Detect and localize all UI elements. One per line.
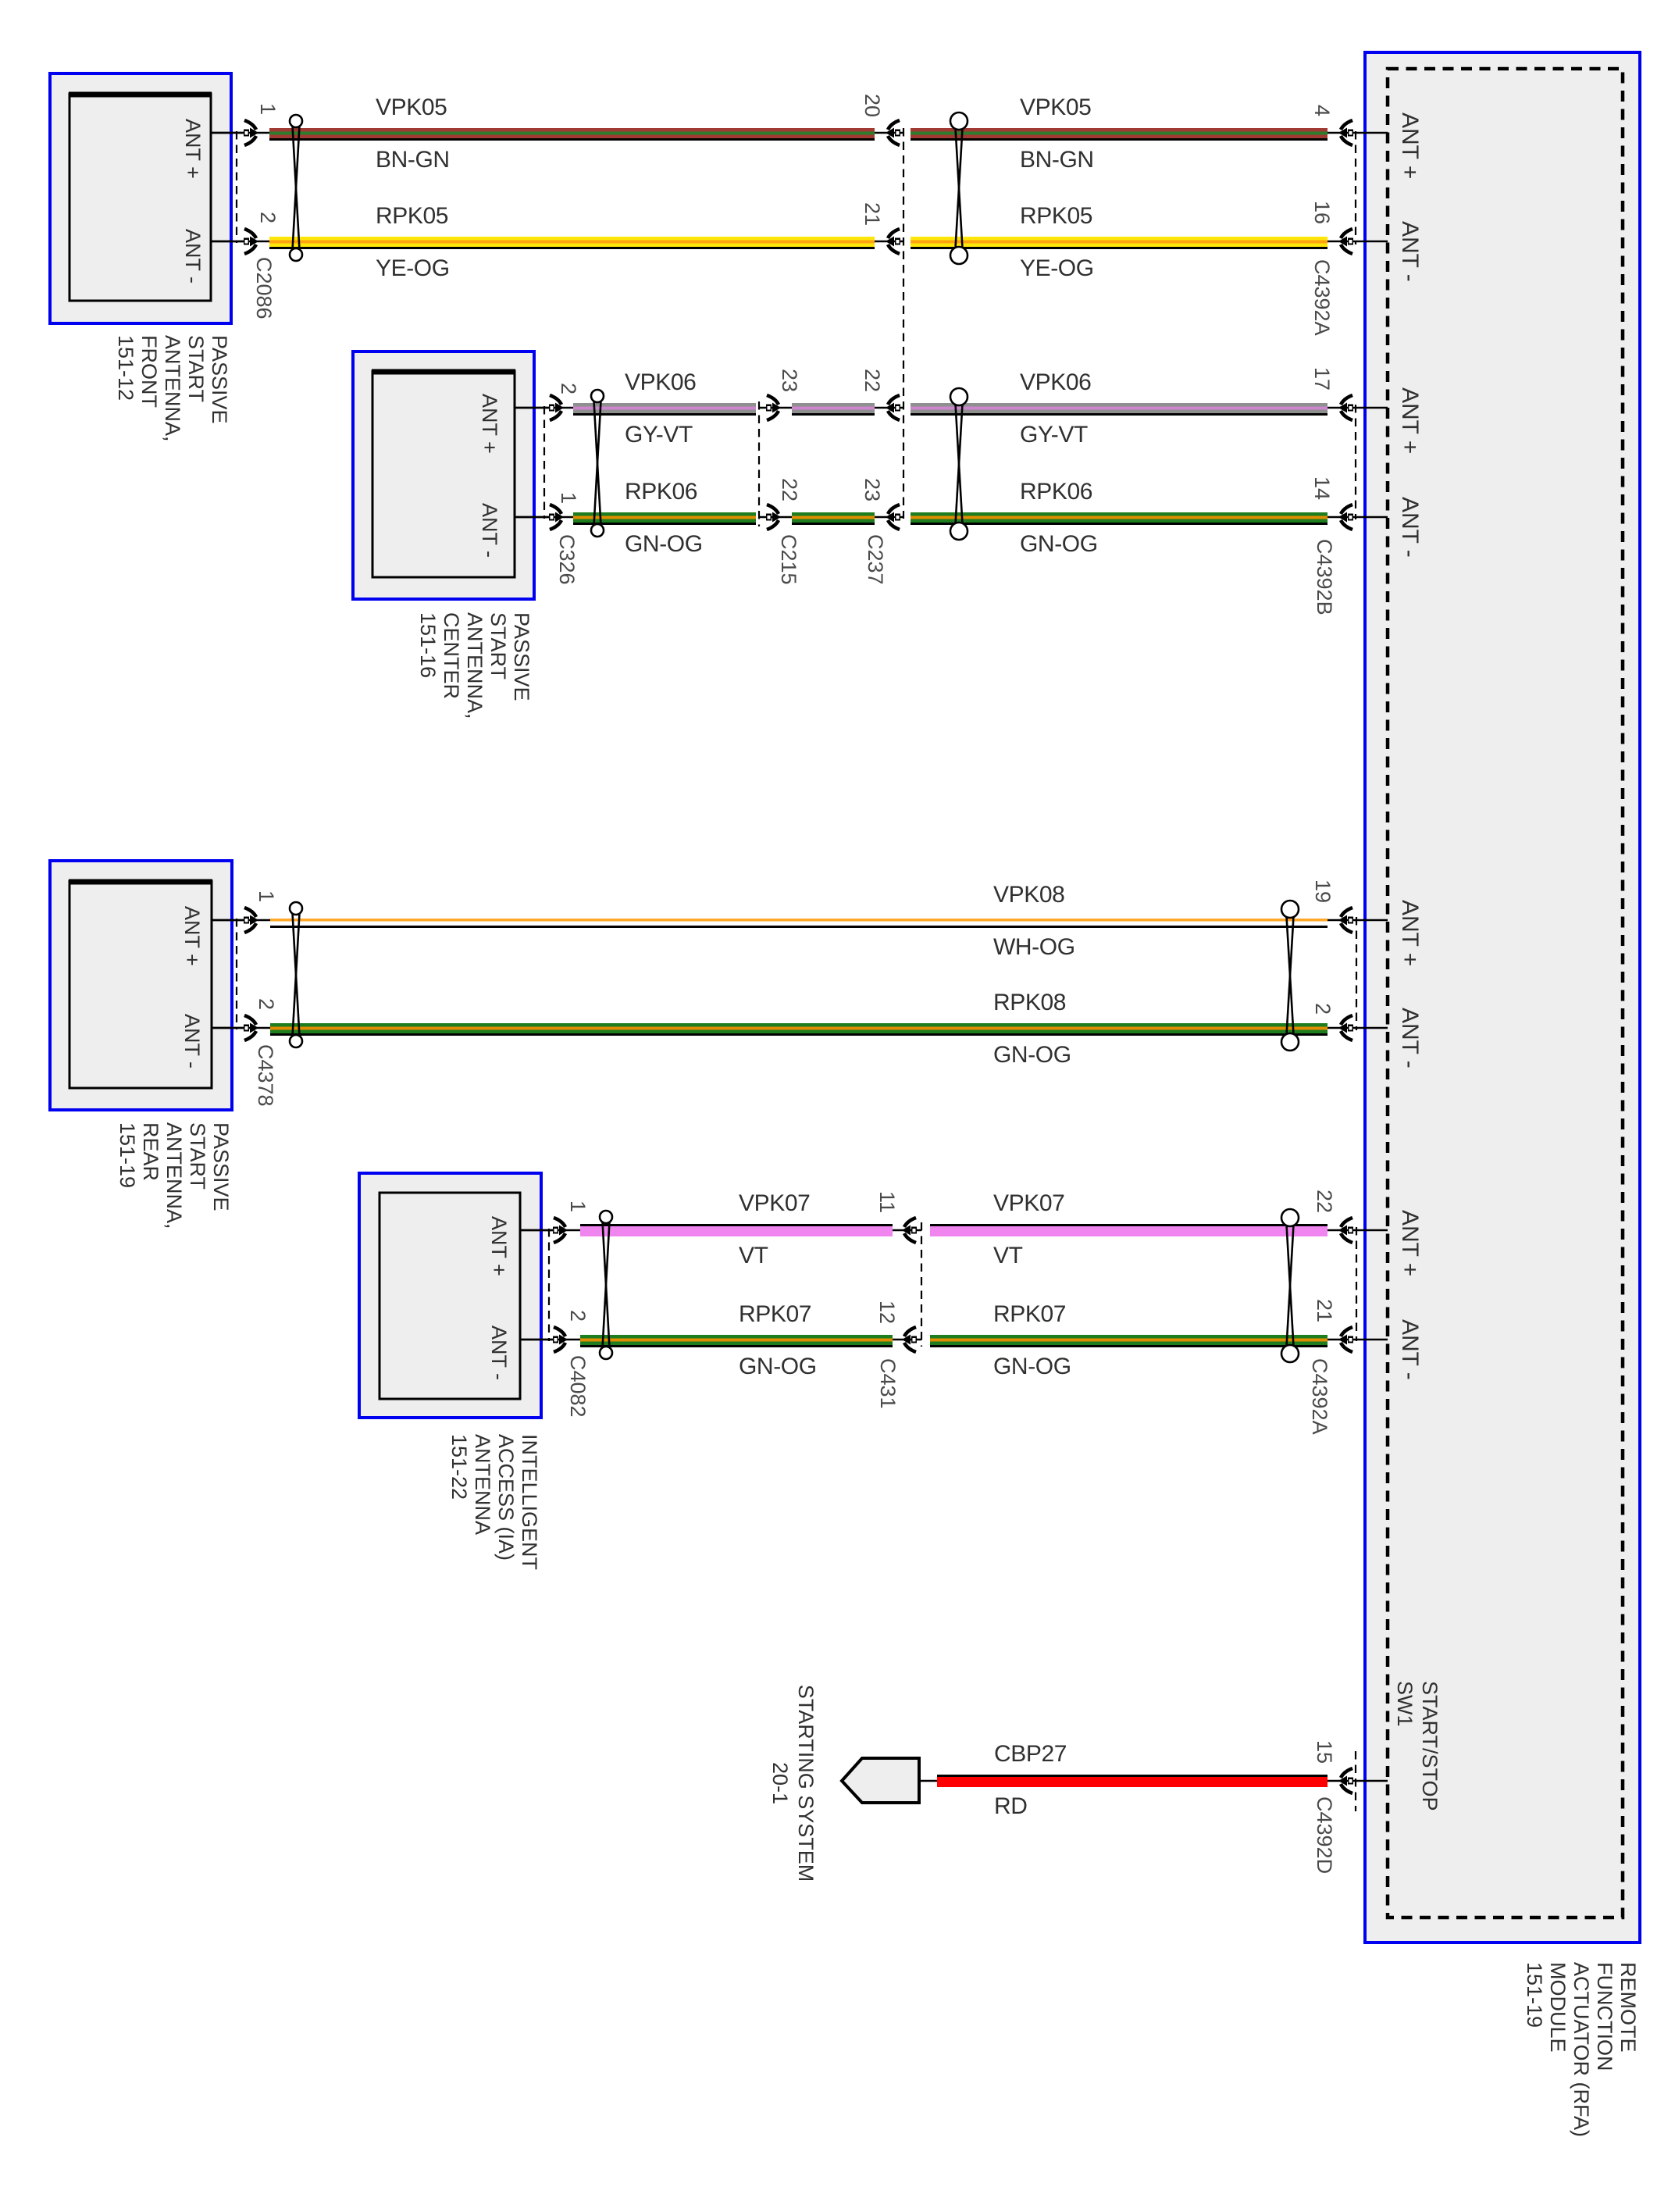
svg-text:C4082: C4082 (566, 1355, 590, 1418)
svg-text:ANT -: ANT - (181, 229, 205, 284)
antenna box: INTELLIGENT ACCESS (IA) ANTENNA (outer + inner) (359, 1173, 541, 1418)
wire color label WH-OG @(1272,1222) (993, 934, 1075, 960)
svg-text:23: 23 (778, 369, 801, 392)
twisted pair loop: VPK06/RPK06 right (950, 388, 968, 540)
terminal arrow IA antenna pin 2 (553, 1327, 568, 1352)
center antenna ANT- label (478, 503, 501, 558)
antenna box: PASSIVE START ANTENNA, FRONT (outer + inner) (50, 73, 231, 323)
terminal arrow IA antenna pin 1 (553, 1218, 568, 1243)
wire stub: module pin at y=662 (1328, 516, 1388, 519)
svg-text:151-12: 151-12 (114, 335, 137, 401)
circuit label VPK05 @(481,147) (376, 95, 447, 120)
wire stub: module pin at y=1715 (1328, 1339, 1388, 1341)
svg-text:22: 22 (778, 478, 801, 501)
svg-text:19: 19 (1311, 879, 1335, 903)
svg-text:VPK05: VPK05 (376, 95, 447, 120)
device label: REMOTE FUNCTION ACTUATOR (RFA) MODULE 151-19 (1523, 1962, 1640, 2137)
pin 1 (center antenna) (557, 492, 580, 504)
wire lead C431 pin 12 (893, 1339, 921, 1341)
svg-text:21: 21 (861, 202, 884, 226)
svg-text:C326: C326 (555, 534, 579, 585)
inline connector dashed line (C237 / pins 20-23) (903, 128, 904, 519)
svg-text:22: 22 (861, 369, 884, 392)
svg-text:SW1: SW1 (1393, 1681, 1417, 1727)
svg-text:2: 2 (566, 1310, 590, 1322)
pin 14 (module) (1310, 476, 1334, 500)
svg-text:CBP27: CBP27 (994, 1741, 1067, 1767)
svg-text:MODULE: MODULE (1546, 1962, 1570, 2053)
terminal arrow C237 pin 23 (886, 505, 900, 530)
terminal arrow module pin 16 (1338, 229, 1353, 254)
wire VPK06 GY-VT segment 2 (792, 403, 875, 416)
twisted pair loop: VPK06/RPK06 left (591, 390, 604, 537)
wire RPK08 GN-OG (270, 1023, 1328, 1036)
svg-text:INTELLIGENT: INTELLIGENT (518, 1434, 541, 1570)
wire lead inline pin 21 (875, 241, 903, 243)
device label: PASSIVE START ANTENNA, REAR 151-19 (116, 1122, 233, 1229)
wire lead C237 pin 23 (875, 516, 903, 519)
wire lead-in rear pin 2 (212, 1027, 273, 1029)
terminal arrow C215 pin 22 (766, 505, 781, 530)
wire RPK05 YE-OG segment 1 (269, 237, 875, 249)
svg-text:YE-OG: YE-OG (1020, 255, 1094, 281)
wire lead-in IA pin 1 (520, 1229, 583, 1232)
wire stub: rear antenna pin 1 (212, 919, 247, 922)
pin 4 (module) (1310, 105, 1334, 116)
wire stub: IA antenna pin 2 (520, 1339, 554, 1341)
wire stub: module pin at y=522 (1328, 407, 1388, 409)
svg-text:RPK07: RPK07 (993, 1301, 1066, 1327)
wire color label BN-GN @(481,214) (376, 147, 450, 173)
svg-text:GN-OG: GN-OG (625, 531, 703, 557)
wire lead-in IA pin 2 (520, 1339, 583, 1341)
svg-text:ACCESS (IA): ACCESS (IA) (494, 1434, 518, 1561)
connector label C4378 (254, 1044, 277, 1107)
front antenna ANT- label (181, 229, 205, 284)
wire stub: module pin at y=1316 (1328, 1027, 1388, 1029)
terminal arrow C237 pin 22 (886, 395, 900, 420)
device label: PASSIVE START ANTENNA, FRONT 151-12 (114, 335, 231, 442)
wire VPK07 VT segment 1 (580, 1224, 893, 1236)
pin 21 (module) (1313, 1299, 1336, 1322)
svg-text:VT: VT (993, 1243, 1023, 1268)
wire color label RD @(1273,2322) (994, 1793, 1028, 1819)
pin 11 (C431) (875, 1191, 899, 1213)
wire lead C431 pin 11 (893, 1229, 921, 1232)
module connector C4392B dashed line (1355, 405, 1356, 519)
svg-text:C4392A: C4392A (1310, 259, 1334, 336)
wire stub: center antenna pin 1 (515, 516, 551, 519)
svg-text:REAR: REAR (139, 1122, 162, 1181)
circuit label VPK07 @(946,1550) (739, 1190, 810, 1216)
wire VPK06 GY-VT segment 3 (911, 403, 1328, 416)
svg-text:ANT -: ANT - (1397, 1008, 1423, 1069)
svg-text:ANT +: ANT + (181, 119, 205, 179)
terminal arrow front antenna pin 1 (244, 120, 258, 145)
pin 2 (IA antenna) (566, 1310, 590, 1322)
terminal arrow module pin 19 (1338, 908, 1353, 933)
pin 15 (module) (1313, 1740, 1336, 1764)
svg-text:GN-OG: GN-OG (739, 1354, 817, 1379)
svg-text:11: 11 (875, 1191, 899, 1213)
connector label C2086 (252, 257, 276, 319)
antenna box: PASSIVE START ANTENNA, CENTER (outer + inner) (353, 351, 534, 599)
svg-text:ANT -: ANT - (478, 503, 501, 558)
terminal arrow rear antenna pin 1 (244, 908, 258, 933)
circuit label VPK06 @(800,499) (625, 369, 696, 395)
module ANT+ label (pin 17) (1397, 387, 1423, 454)
svg-text:VPK07: VPK07 (739, 1190, 810, 1216)
svg-text:GN-OG: GN-OG (1020, 531, 1098, 557)
module ANT- label (pin 21) (1397, 1319, 1423, 1380)
terminal arrow C431 pin 11 (902, 1218, 917, 1243)
wire stub: module pin at y=1575 (1328, 1229, 1388, 1232)
connector label C4392D (1313, 1796, 1336, 1874)
rear antenna ANT- label (180, 1014, 204, 1069)
svg-text:PASSIVE: PASSIVE (510, 612, 533, 701)
pin 17 (module) (1310, 367, 1334, 391)
svg-text:ANT -: ANT - (1397, 1319, 1423, 1380)
pin 2 (front antenna) (256, 212, 280, 223)
svg-text:C4392A: C4392A (1308, 1358, 1331, 1435)
twisted pair loop: VPK05/RPK05 left (290, 115, 302, 261)
wire VPK07 VT segment 2 (930, 1224, 1328, 1236)
module ANT- label (pin 16) (1397, 221, 1423, 282)
svg-text:RPK05: RPK05 (1020, 203, 1092, 229)
terminal arrow module pin 4 (1338, 120, 1353, 145)
module inner dashed boundary (1388, 69, 1623, 1918)
module ANT+ label (pin 4) (1397, 112, 1423, 179)
svg-text:ANT +: ANT + (487, 1216, 511, 1276)
connector label C4392A (pair 07) (1308, 1358, 1331, 1435)
svg-text:RPK08: RPK08 (993, 990, 1066, 1015)
connector label C4082 (566, 1355, 590, 1418)
pin 22 (C237) (861, 369, 884, 392)
wire lead-in center pin 2 (515, 407, 576, 409)
svg-text:20-1: 20-1 (768, 1762, 792, 1804)
svg-text:2: 2 (256, 212, 280, 223)
circuit label RPK07 @(946,1692) (739, 1301, 811, 1327)
svg-text:ANTENNA,: ANTENNA, (463, 612, 486, 719)
wire color label GN-OG @(946,1759) (739, 1354, 817, 1379)
module ANT+ label (pin 22) (1397, 1210, 1423, 1276)
svg-text:4: 4 (1310, 105, 1334, 116)
svg-text:22: 22 (1313, 1190, 1336, 1213)
connector C4082 dashed line (548, 1229, 550, 1341)
pin 20 (inline) (861, 94, 884, 117)
pin 21 (inline) (861, 202, 884, 226)
terminal arrow center antenna pin 2 (549, 395, 564, 420)
svg-text:BN-GN: BN-GN (1020, 147, 1094, 173)
svg-text:1: 1 (557, 492, 580, 504)
terminal arrow module pin 15 (1338, 1768, 1353, 1793)
svg-text:ANT +: ANT + (1397, 1210, 1423, 1276)
svg-text:C4392B: C4392B (1313, 539, 1336, 615)
svg-text:ANT +: ANT + (180, 906, 204, 966)
terminal arrow module pin 17 (1338, 395, 1353, 420)
circuit label RPK06 @(1306,639) (1020, 479, 1092, 505)
antenna box: PASSIVE START ANTENNA, REAR (outer + inner) (50, 861, 232, 1110)
svg-text:VPK08: VPK08 (993, 882, 1064, 908)
wire color label BN-GN @(1306,214) (1020, 147, 1094, 173)
pin 2 (module) (1311, 1003, 1335, 1015)
svg-text:2: 2 (557, 383, 580, 394)
connector C4378 dashed line (236, 919, 237, 1029)
svg-text:ANTENNA,: ANTENNA, (161, 335, 184, 442)
connector C431 dashed line (921, 1222, 922, 1347)
svg-text:C237: C237 (864, 534, 887, 585)
svg-text:REMOTE: REMOTE (1616, 1962, 1640, 2053)
wire lead-in center pin 1 (515, 516, 576, 519)
circuit label CBP27 @(1273,2255) (994, 1741, 1067, 1767)
connector label C326 (555, 534, 579, 585)
svg-text:GN-OG: GN-OG (993, 1042, 1071, 1068)
connector C326 dashed line (543, 406, 545, 519)
IA antenna ANT- label (487, 1325, 511, 1380)
wire VPK06 GY-VT segment 1 (573, 403, 756, 416)
svg-text:C431: C431 (876, 1358, 900, 1409)
svg-text:C2086: C2086 (252, 257, 276, 319)
connector label C4392B (1313, 539, 1336, 615)
IA antenna ANT+ label (487, 1216, 511, 1276)
wire color label YE-OG @(481,353) (376, 255, 450, 281)
terminal arrow inline pin 21 (886, 229, 900, 254)
pin 23 (C237) (861, 478, 884, 501)
module ANT- label (pin 14) (1397, 497, 1423, 558)
wire RPK07 GN-OG segment 2 (930, 1335, 1328, 1347)
twisted pair loop: VPK08/RPK08 right (1281, 901, 1299, 1051)
wire stub: rear antenna pin 2 (212, 1027, 247, 1029)
module connector (pair 08) dashed line (1356, 917, 1357, 1030)
wire lead-in front pin 2 (211, 241, 272, 243)
device label: PASSIVE START ANTENNA, CENTER 151-16 (416, 612, 533, 719)
module internal label: START/STOP SW1 (1393, 1681, 1442, 1811)
connector label C215 (777, 534, 800, 585)
wire stub: starting system connector (919, 1780, 937, 1782)
wire VPK05 BN-GN segment 2 (911, 128, 1328, 141)
circuit label VPK05 @(1306,147) (1020, 95, 1091, 120)
pin 2 (rear antenna) (255, 998, 278, 1010)
circuit label RPK07 @(1272,1692) (993, 1301, 1066, 1327)
svg-text:START: START (186, 1122, 209, 1190)
device label: INTELLIGENT ACCESS (IA) ANTENNA 151-22 (447, 1434, 541, 1570)
svg-text:20: 20 (861, 94, 884, 117)
wire stub: front antenna pin 2 (211, 241, 247, 243)
rear antenna ANT+ label (180, 906, 204, 966)
pin 1 (front antenna) (256, 103, 280, 115)
svg-text:GN-OG: GN-OG (993, 1354, 1071, 1379)
module ANT+ label (pin 19) (1397, 900, 1423, 966)
svg-text:ANT -: ANT - (1397, 497, 1423, 558)
pin 22 (module) (1313, 1190, 1336, 1213)
pin 23 (C215) (778, 369, 801, 392)
svg-text:C4392D: C4392D (1313, 1796, 1336, 1874)
svg-text:2: 2 (255, 998, 278, 1010)
wire RPK05 YE-OG segment 2 (911, 237, 1328, 249)
wire stub: module pin at y=2280 (1328, 1780, 1388, 1782)
wire color label GN-OG @(1272,1360) (993, 1042, 1071, 1068)
pin 16 (module) (1310, 201, 1334, 224)
svg-text:15: 15 (1313, 1740, 1336, 1764)
wire lead C215 pin 23 (759, 407, 793, 409)
connector label C237 (864, 534, 887, 585)
module ANT- label (pin 2) (1397, 1008, 1423, 1069)
svg-text:16: 16 (1310, 201, 1334, 224)
svg-text:C4378: C4378 (254, 1044, 277, 1107)
svg-text:151-16: 151-16 (416, 612, 440, 678)
svg-text:2: 2 (1311, 1003, 1335, 1015)
svg-text:CENTER: CENTER (440, 612, 463, 699)
pin 2 (center antenna) (557, 383, 580, 394)
twisted pair loop: VPK07/RPK07 right (1281, 1209, 1299, 1362)
svg-text:GY-VT: GY-VT (1020, 422, 1088, 448)
svg-text:ANT +: ANT + (478, 394, 501, 454)
terminal arrow center antenna pin 1 (549, 505, 564, 530)
wire color label GN-OG @(1272,1759) (993, 1354, 1071, 1379)
pin 1 (rear antenna) (255, 890, 278, 902)
svg-text:STARTING SYSTEM: STARTING SYSTEM (794, 1685, 818, 1882)
terminal arrow module pin 14 (1338, 505, 1353, 530)
twisted pair loop: VPK08/RPK08 left (290, 902, 302, 1047)
wire stub: IA antenna pin 1 (520, 1229, 554, 1232)
svg-text:VPK06: VPK06 (1020, 369, 1091, 395)
svg-text:RPK07: RPK07 (739, 1301, 811, 1327)
svg-text:23: 23 (861, 478, 884, 501)
wire color label VT @(1272,1617) (993, 1243, 1023, 1268)
wire color label GN-OG @(800,706) (625, 531, 703, 557)
pin 12 (C431) (875, 1300, 899, 1324)
svg-text:1: 1 (566, 1201, 590, 1212)
svg-text:151-19: 151-19 (116, 1122, 139, 1188)
svg-text:RPK05: RPK05 (376, 203, 448, 229)
terminal arrow module pin 22 (1338, 1218, 1353, 1243)
wire stub: front antenna pin 1 (211, 132, 247, 134)
svg-text:ANT -: ANT - (487, 1325, 511, 1380)
svg-text:ANTENNA,: ANTENNA, (162, 1122, 186, 1229)
svg-text:151-22: 151-22 (447, 1434, 471, 1500)
wire lead inline pin 20 (875, 132, 903, 134)
terminal arrow rear antenna pin 2 (244, 1015, 258, 1040)
svg-text:GY-VT: GY-VT (625, 422, 693, 448)
circuit label VPK06 @(1306,499) (1020, 369, 1091, 395)
svg-text:VPK05: VPK05 (1020, 95, 1091, 120)
terminal arrow module pin 2 (1338, 1015, 1353, 1040)
wire RPK07 GN-OG segment 1 (580, 1335, 893, 1347)
module connector C4392A dashed line (1355, 131, 1356, 244)
svg-text:21: 21 (1313, 1299, 1336, 1322)
terminal arrow front antenna pin 2 (244, 229, 258, 254)
svg-text:ANT +: ANT + (1397, 112, 1423, 179)
wire color label VT @(946,1617) (739, 1243, 768, 1268)
wire lead-in rear pin 1 (212, 919, 273, 922)
wire color label GY-VT @(1306,566) (1020, 422, 1088, 448)
svg-text:14: 14 (1310, 476, 1334, 500)
svg-text:FUNCTION: FUNCTION (1593, 1962, 1616, 2071)
off-page connector: STARTING SYSTEM pentagon (842, 1758, 919, 1803)
circuit label RPK05 @(481,286) (376, 203, 448, 229)
svg-text:1: 1 (255, 890, 278, 902)
terminal arrow inline pin 20 (886, 120, 900, 145)
wire CBP27 RD (937, 1775, 1328, 1787)
connector label C4392A (1310, 259, 1334, 336)
connector C2086 dashed line (236, 131, 237, 243)
module connector C4392A (pair 07) dashed line (1356, 1227, 1357, 1341)
wire color label GY-VT @(800,566) (625, 422, 693, 448)
svg-text:151-19: 151-19 (1523, 1962, 1546, 2028)
svg-text:VT: VT (739, 1243, 768, 1268)
connector C215 dashed line (758, 401, 760, 526)
module box: REMOTE FUNCTION ACTUATOR (RFA) MODULE (1365, 52, 1640, 1943)
pin 19 (module) (1311, 879, 1335, 903)
pin 1 (IA antenna) (566, 1201, 590, 1212)
svg-text:START/STOP: START/STOP (1418, 1681, 1442, 1811)
pin 22 (C215) (778, 478, 801, 501)
wire stub: module pin at y=170 (1328, 132, 1388, 134)
svg-text:YE-OG: YE-OG (376, 255, 450, 281)
circuit label VPK07 @(1272,1550) (993, 1190, 1064, 1216)
svg-text:ANT +: ANT + (1397, 900, 1423, 966)
svg-text:FRONT: FRONT (137, 335, 161, 408)
wire color label GN-OG @(1306,706) (1020, 531, 1098, 557)
svg-text:RPK06: RPK06 (625, 479, 697, 505)
svg-text:RPK06: RPK06 (1020, 479, 1092, 505)
wire color label YE-OG @(1306,353) (1020, 255, 1094, 281)
svg-text:VPK07: VPK07 (993, 1190, 1064, 1216)
svg-text:PASSIVE: PASSIVE (208, 335, 231, 424)
svg-text:ANT -: ANT - (1397, 221, 1423, 282)
wire VPK08 WH-OG (270, 919, 1328, 928)
wire stub: center antenna pin 2 (515, 407, 551, 409)
wire stub: module pin at y=309 (1328, 241, 1388, 243)
module connector C4392D dashed line (1355, 1751, 1356, 1811)
wire lead C215 pin 22 (759, 516, 793, 519)
terminal arrow module pin 21 (1338, 1327, 1353, 1352)
svg-text:ACTUATOR (RFA): ACTUATOR (RFA) (1570, 1962, 1593, 2137)
svg-text:RD: RD (994, 1793, 1028, 1819)
wire stub: module pin at y=1178 (1328, 919, 1388, 922)
connector label C431 (876, 1358, 900, 1409)
terminal arrow C215 pin 23 (766, 395, 781, 420)
svg-text:START: START (184, 335, 208, 402)
twisted pair loop: VPK05/RPK05 right (950, 112, 968, 264)
svg-text:WH-OG: WH-OG (993, 934, 1075, 960)
svg-text:START: START (486, 612, 510, 680)
terminal arrow C431 pin 12 (902, 1327, 917, 1352)
wire RPK06 GN-OG segment 3 (911, 512, 1328, 525)
front antenna ANT+ label (181, 119, 205, 179)
svg-text:ANTENNA: ANTENNA (471, 1434, 494, 1535)
svg-text:ANT -: ANT - (180, 1014, 204, 1069)
wire lead-in front pin 1 (211, 132, 272, 134)
twisted pair loop: VPK07/RPK07 left (600, 1211, 612, 1359)
circuit label RPK08 @(1272,1293) (993, 990, 1066, 1015)
circuit label RPK06 @(800,639) (625, 479, 697, 505)
svg-text:VPK06: VPK06 (625, 369, 696, 395)
circuit label RPK05 @(1306,286) (1020, 203, 1092, 229)
off-page label: STARTING SYSTEM 20-1 (768, 1685, 818, 1882)
svg-text:1: 1 (256, 103, 280, 115)
svg-text:BN-GN: BN-GN (376, 147, 450, 173)
wire VPK05 BN-GN segment 1 (269, 128, 875, 141)
wire lead C237 pin 22 (875, 407, 903, 409)
wire RPK06 GN-OG segment 2 (792, 512, 875, 525)
wire RPK06 GN-OG segment 1 (573, 512, 756, 525)
circuit label VPK08 @(1272,1155) (993, 882, 1064, 908)
svg-text:ANT +: ANT + (1397, 387, 1423, 454)
svg-text:C215: C215 (777, 534, 800, 585)
svg-text:12: 12 (875, 1300, 899, 1324)
center antenna ANT+ label (478, 394, 501, 454)
